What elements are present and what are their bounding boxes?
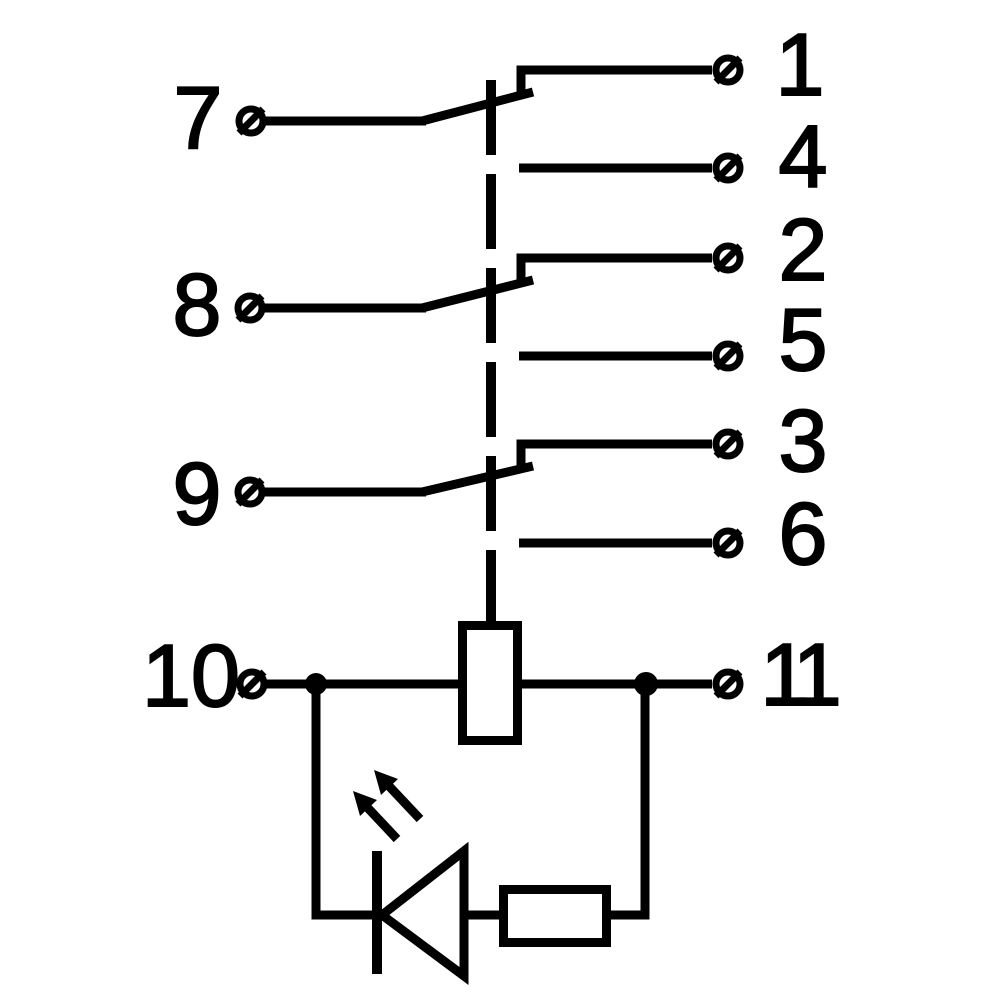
- terminal 6: [716, 531, 740, 555]
- terminal 8: [238, 296, 262, 320]
- wire LED to resistor: [462, 911, 502, 920]
- wire fixed contact to terminal 2 with hook: [521, 258, 712, 284]
- mechanical linkage dashed line: [486, 80, 496, 625]
- svg-text:2: 2: [779, 200, 828, 299]
- svg-text:4: 4: [779, 107, 828, 206]
- wire to terminal 6: [519, 539, 712, 548]
- wire terminal 9 to armature pivot: [264, 488, 426, 497]
- wire to terminal 4: [519, 164, 712, 173]
- svg-text:11: 11: [760, 625, 841, 724]
- terminal 2: [716, 246, 740, 270]
- terminal 1: [716, 58, 740, 82]
- terminal 10: [240, 672, 264, 696]
- wire fixed contact to terminal 1 with hook: [521, 70, 712, 96]
- junction node A (dot): [305, 673, 327, 695]
- wire terminal 7 to armature pivot: [264, 117, 426, 126]
- switch K3 armature (pole 9): [422, 466, 533, 492]
- svg-text:7: 7: [174, 68, 223, 167]
- junction node B (dot): [634, 672, 658, 696]
- resistor R1 rectangle: [504, 890, 607, 943]
- switch K2 armature (pole 8): [422, 280, 533, 308]
- svg-text:6: 6: [779, 484, 828, 583]
- terminal 5: [716, 344, 740, 368]
- terminal 7: [239, 109, 263, 133]
- LED branch: left vertical wire and bottom wire: [316, 684, 373, 915]
- wire terminal 10 to coil: [264, 680, 462, 689]
- svg-text:5: 5: [779, 290, 828, 389]
- switch K1 armature (pole 7): [422, 92, 533, 121]
- svg-text:1: 1: [776, 15, 825, 114]
- wire fixed contact to terminal 3 with hook: [521, 444, 712, 470]
- wire terminal 8 to armature pivot: [264, 304, 426, 313]
- LED light arrow 1: [353, 791, 397, 839]
- wire coil to terminal 11: [518, 680, 712, 689]
- svg-text:8: 8: [173, 255, 222, 354]
- LED D1 cathode bar: [372, 851, 382, 974]
- wire to terminal 5: [519, 352, 712, 361]
- terminal 11: [716, 672, 740, 696]
- LED D1 triangle: [382, 851, 464, 976]
- svg-text:9: 9: [173, 444, 222, 543]
- terminal 4: [716, 156, 740, 180]
- wire resistor to right branch, up to node B: [606, 684, 645, 915]
- LED light arrow 2: [374, 770, 420, 819]
- coil K1 rectangle: [463, 626, 518, 741]
- terminal 9: [238, 480, 262, 504]
- terminal 3: [716, 432, 740, 456]
- svg-text:10: 10: [142, 626, 240, 725]
- svg-text:3: 3: [779, 391, 828, 490]
